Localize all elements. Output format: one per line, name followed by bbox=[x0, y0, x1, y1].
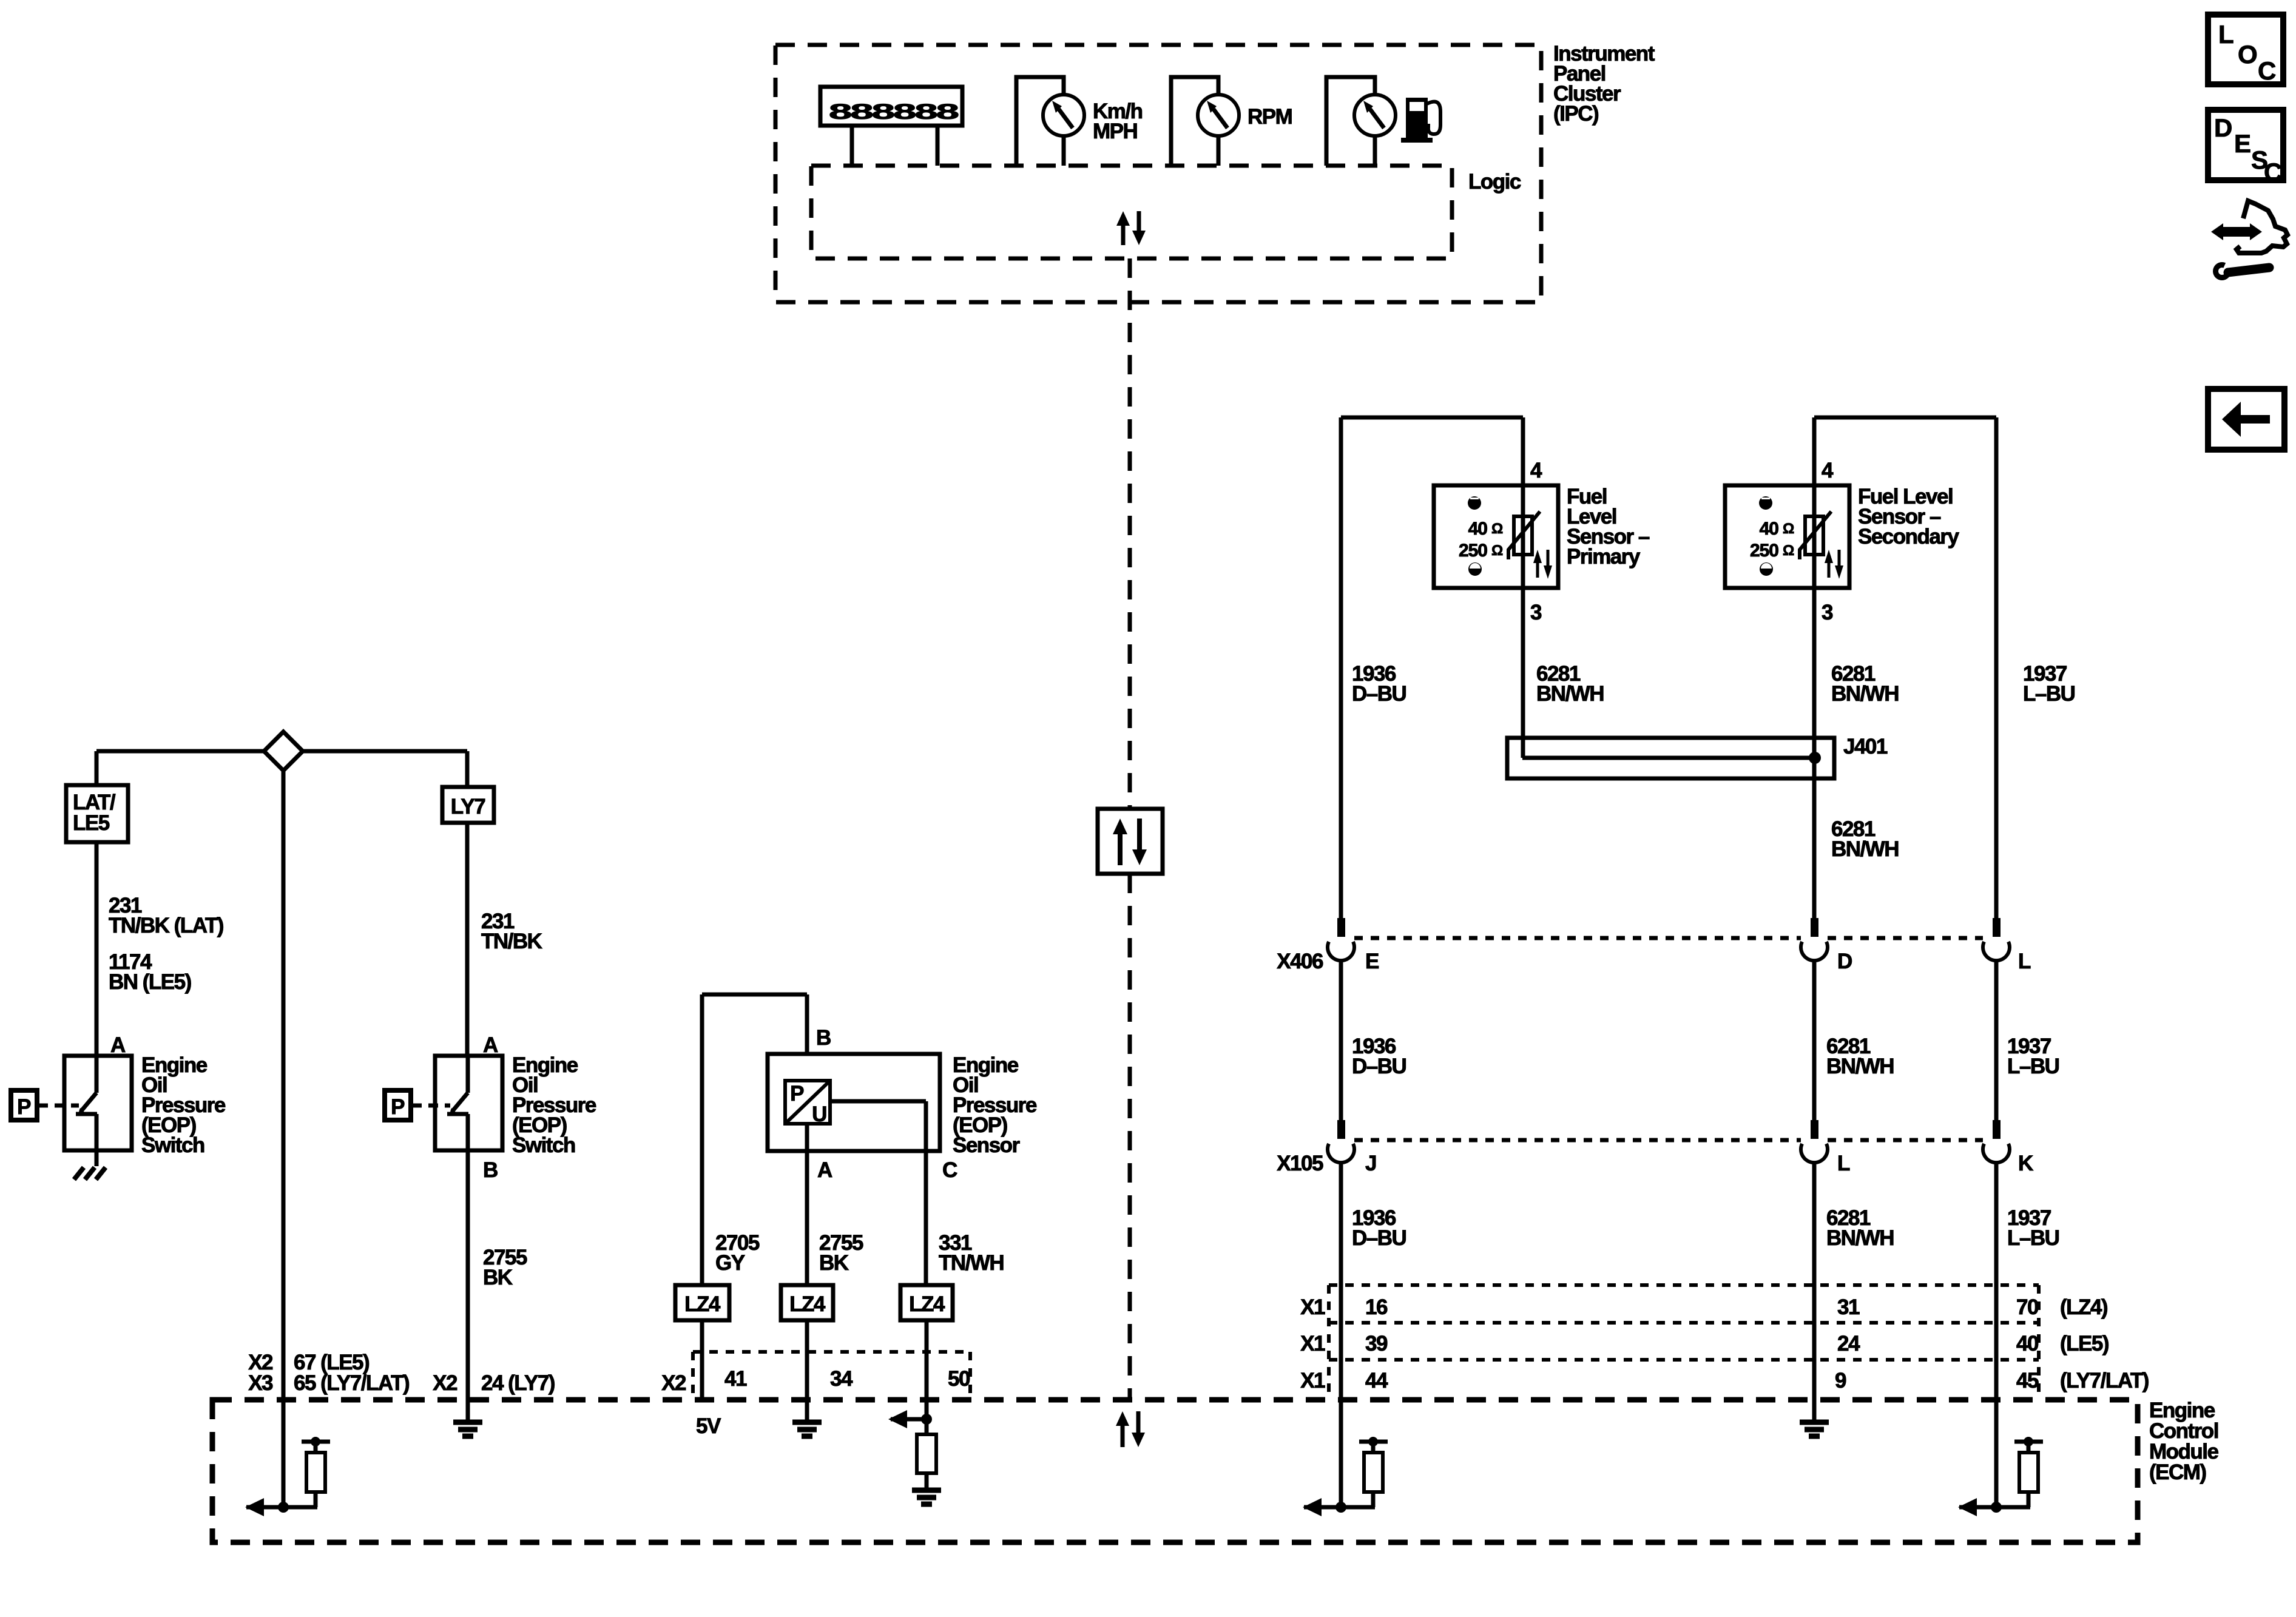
svg-text:Sensor: Sensor bbox=[953, 1133, 1021, 1157]
svg-text:39: 39 bbox=[1365, 1332, 1388, 1355]
svg-text:3: 3 bbox=[1530, 601, 1542, 624]
svg-text:A: A bbox=[483, 1033, 498, 1057]
svg-text:BN/WH: BN/WH bbox=[1536, 682, 1604, 706]
svg-text:RPM: RPM bbox=[1248, 105, 1292, 129]
svg-text:4: 4 bbox=[1530, 459, 1542, 482]
svg-text:L–BU: L–BU bbox=[2023, 682, 2075, 706]
svg-text:BN/WH: BN/WH bbox=[1826, 1226, 1894, 1250]
svg-text:J401: J401 bbox=[1843, 735, 1888, 758]
svg-text:A: A bbox=[817, 1158, 832, 1182]
svg-text:(LE5): (LE5) bbox=[2060, 1332, 2109, 1355]
svg-text:BN/WH: BN/WH bbox=[1831, 682, 1899, 706]
svg-text:B: B bbox=[816, 1026, 831, 1050]
svg-text:44: 44 bbox=[1365, 1369, 1388, 1393]
svg-text:D–BU: D–BU bbox=[1352, 1226, 1406, 1250]
svg-text:C: C bbox=[2264, 158, 2282, 186]
svg-text:24: 24 bbox=[1837, 1332, 1860, 1355]
svg-text:65 (LY7/LAT): 65 (LY7/LAT) bbox=[294, 1371, 409, 1395]
svg-text:BK: BK bbox=[819, 1251, 849, 1275]
svg-text:40: 40 bbox=[1468, 519, 1488, 539]
svg-text:K: K bbox=[2018, 1152, 2033, 1175]
svg-text:250: 250 bbox=[1459, 541, 1487, 561]
svg-text:(IPC): (IPC) bbox=[1553, 102, 1598, 126]
svg-text:70: 70 bbox=[2016, 1295, 2039, 1319]
svg-text:LY7: LY7 bbox=[451, 795, 485, 819]
svg-text:L: L bbox=[2018, 950, 2031, 973]
svg-text:TN/WH: TN/WH bbox=[939, 1251, 1004, 1275]
svg-text:Ω: Ω bbox=[1491, 521, 1503, 537]
svg-text:J: J bbox=[1365, 1152, 1376, 1175]
svg-text:O: O bbox=[2238, 40, 2258, 69]
svg-text:P: P bbox=[391, 1095, 405, 1119]
svg-text:(ECM): (ECM) bbox=[2149, 1460, 2206, 1484]
svg-text:D–BU: D–BU bbox=[1352, 682, 1406, 706]
svg-text:GY: GY bbox=[715, 1251, 745, 1275]
svg-text:(LZ4): (LZ4) bbox=[2060, 1295, 2107, 1319]
svg-text:Switch: Switch bbox=[141, 1133, 204, 1157]
svg-text:L: L bbox=[1837, 1152, 1850, 1175]
svg-text:TN/BK (LAT): TN/BK (LAT) bbox=[109, 914, 223, 937]
svg-text:16: 16 bbox=[1365, 1295, 1388, 1319]
svg-text:Secondary: Secondary bbox=[1858, 525, 1959, 549]
svg-text:L–BU: L–BU bbox=[2007, 1226, 2059, 1250]
svg-text:40: 40 bbox=[1760, 519, 1779, 539]
svg-text:X2: X2 bbox=[661, 1371, 686, 1395]
svg-text:D–BU: D–BU bbox=[1352, 1055, 1406, 1078]
svg-text:Switch: Switch bbox=[512, 1133, 575, 1157]
svg-text:Ω: Ω bbox=[1783, 542, 1794, 559]
svg-text:LE5: LE5 bbox=[73, 811, 110, 835]
svg-text:D: D bbox=[1837, 950, 1852, 973]
svg-text:X1: X1 bbox=[1300, 1369, 1325, 1393]
svg-text:3: 3 bbox=[1822, 601, 1833, 624]
svg-text:B: B bbox=[483, 1158, 498, 1182]
svg-text:BN (LE5): BN (LE5) bbox=[109, 970, 191, 994]
svg-text:MPH: MPH bbox=[1093, 120, 1137, 143]
svg-text:250: 250 bbox=[1750, 541, 1778, 561]
svg-text:L: L bbox=[2218, 20, 2234, 49]
svg-text:LZ4: LZ4 bbox=[909, 1292, 945, 1316]
svg-text:BN/WH: BN/WH bbox=[1826, 1055, 1894, 1078]
svg-text:X406: X406 bbox=[1277, 950, 1323, 973]
svg-text:U: U bbox=[812, 1102, 826, 1126]
svg-text:5V: 5V bbox=[696, 1414, 721, 1438]
svg-text:LZ4: LZ4 bbox=[789, 1292, 826, 1316]
svg-text:BK: BK bbox=[483, 1266, 513, 1289]
svg-text:Ω: Ω bbox=[1783, 521, 1794, 537]
svg-text:45: 45 bbox=[2016, 1369, 2039, 1393]
svg-text:X2: X2 bbox=[433, 1371, 458, 1395]
svg-text:X105: X105 bbox=[1277, 1152, 1323, 1175]
svg-text:BN/WH: BN/WH bbox=[1831, 837, 1899, 861]
svg-text:Primary: Primary bbox=[1567, 545, 1641, 569]
svg-text:D: D bbox=[2214, 113, 2232, 142]
svg-text:L–BU: L–BU bbox=[2007, 1055, 2059, 1078]
svg-text:41: 41 bbox=[724, 1367, 747, 1391]
svg-text:X1: X1 bbox=[1300, 1295, 1325, 1319]
svg-text:888888: 888888 bbox=[829, 100, 959, 124]
svg-text:TN/BK: TN/BK bbox=[481, 930, 542, 953]
svg-text:A: A bbox=[110, 1033, 126, 1057]
svg-text:C: C bbox=[942, 1158, 957, 1182]
svg-text:50: 50 bbox=[948, 1367, 970, 1391]
svg-text:31: 31 bbox=[1837, 1295, 1860, 1319]
svg-text:E: E bbox=[1365, 950, 1379, 973]
svg-text:9: 9 bbox=[1835, 1369, 1846, 1393]
svg-text:24 (LY7): 24 (LY7) bbox=[481, 1371, 555, 1395]
svg-text:E: E bbox=[2234, 129, 2251, 158]
svg-text:34: 34 bbox=[830, 1367, 853, 1391]
svg-text:X3: X3 bbox=[248, 1371, 273, 1395]
svg-text:C: C bbox=[2258, 56, 2276, 85]
svg-text:Ω: Ω bbox=[1491, 542, 1503, 559]
svg-text:X1: X1 bbox=[1300, 1332, 1325, 1355]
svg-text:4: 4 bbox=[1822, 459, 1834, 482]
svg-text:Logic: Logic bbox=[1468, 170, 1521, 194]
svg-text:40: 40 bbox=[2016, 1332, 2039, 1355]
svg-text:(LY7/LAT): (LY7/LAT) bbox=[2060, 1369, 2149, 1393]
svg-text:LZ4: LZ4 bbox=[684, 1292, 721, 1316]
svg-text:P: P bbox=[790, 1082, 804, 1106]
svg-text:P: P bbox=[17, 1095, 31, 1119]
